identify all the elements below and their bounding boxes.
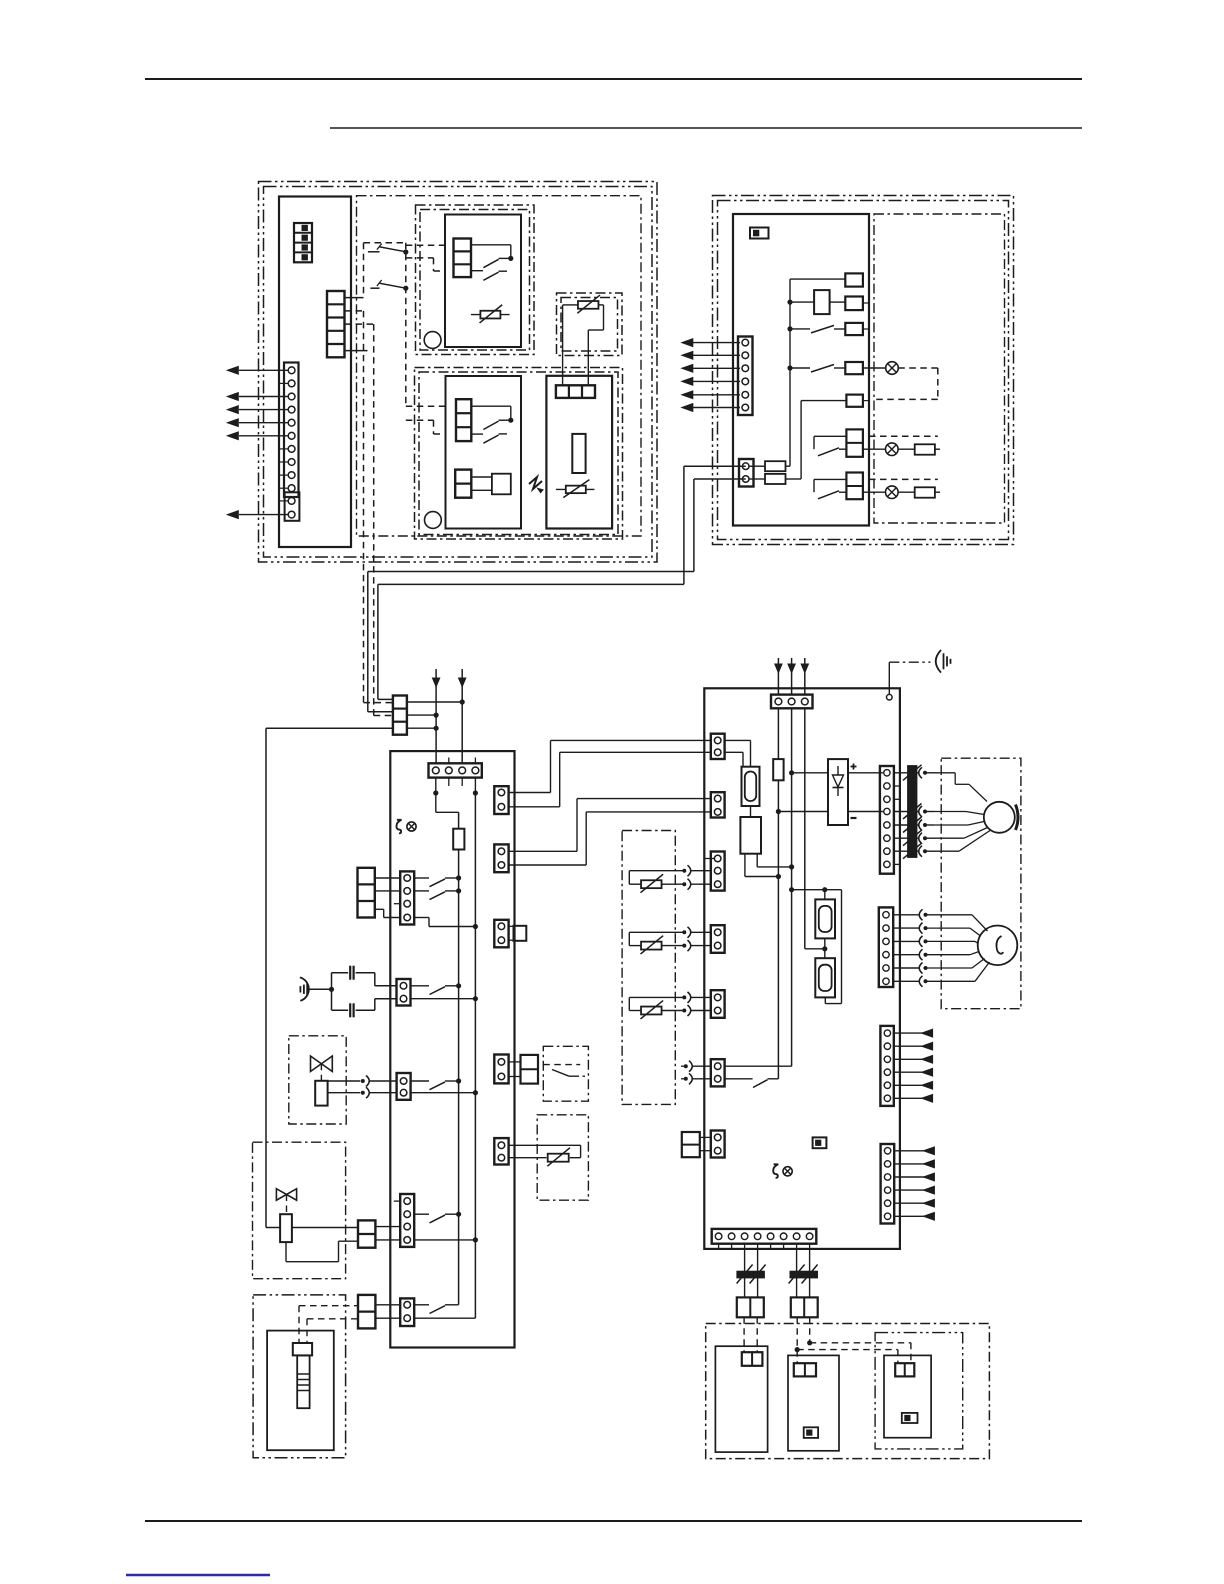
bridge plug [509, 925, 514, 927]
electrode block 3 [884, 1355, 931, 1437]
valve symbol [276, 1189, 296, 1201]
wire L-feed A [684, 465, 746, 467]
connector X5 2-pole [397, 1073, 411, 1100]
service icon [396, 820, 401, 834]
motor fan M3 [984, 802, 1015, 833]
node junction [456, 875, 461, 880]
connector X9 2-pole [494, 844, 508, 872]
earth terminal [887, 694, 893, 700]
node junction [807, 1340, 812, 1345]
lamp icon [407, 822, 416, 831]
relay contact [725, 1078, 753, 1080]
terminal circle [424, 332, 441, 349]
node junction [473, 1237, 478, 1242]
wire [414, 1317, 475, 1319]
relay contact [411, 1080, 429, 1082]
link underline [126, 1574, 270, 1576]
plug contact [361, 1079, 365, 1083]
antenna bar [572, 434, 585, 473]
jumper box [813, 1137, 827, 1148]
node outdoor sensor enclosure [557, 293, 623, 356]
wire [375, 1226, 400, 1228]
wire dashed [298, 1306, 300, 1343]
lamp H1 [863, 367, 886, 369]
node ignition unit enclosure [253, 1295, 346, 1458]
resistor NTC [471, 314, 510, 316]
relay contact [414, 877, 429, 879]
connector 3-pole [456, 399, 471, 441]
relay contact [483, 259, 498, 267]
plug pair [509, 1061, 521, 1063]
node boiler control enclosure outer border [259, 182, 658, 563]
node junction [473, 1090, 478, 1095]
node junction [508, 418, 513, 423]
spark plug body [297, 1355, 309, 1408]
wire [599, 304, 604, 306]
node junction [403, 249, 408, 254]
connector X13 2-pole [494, 920, 508, 948]
controller module KM1 [279, 197, 351, 548]
indicator box [750, 228, 769, 239]
wire [330, 127, 1082, 129]
connector external 2-pole [358, 1220, 375, 1247]
connector X20 3-pole [393, 696, 407, 735]
wire [375, 1304, 400, 1306]
relay contact K1 [368, 251, 380, 253]
connector X8 2-pole [494, 786, 508, 814]
relay contact [414, 890, 429, 892]
relay contact K4 [790, 328, 810, 330]
shielded cable bar [908, 766, 917, 858]
mains wires with arrows [777, 658, 779, 695]
relay output O3 [845, 323, 863, 335]
node junction [508, 256, 513, 261]
wire [345, 310, 364, 312]
wire [375, 890, 400, 892]
wire [407, 727, 436, 729]
wire stubs [894, 785, 900, 787]
switch contact [552, 1070, 569, 1077]
plug block right [791, 1297, 818, 1317]
node junction [433, 790, 438, 795]
wire [414, 1239, 475, 1241]
wire [407, 701, 462, 703]
plug contact [361, 1091, 365, 1095]
wire [725, 739, 751, 741]
relay K7 [815, 958, 835, 997]
room thermostat module B2 [446, 376, 522, 529]
terminal strip X1 4-pole [429, 763, 482, 777]
wire [411, 1092, 476, 1094]
fuse F3 [453, 829, 464, 850]
wire dashed [306, 1319, 308, 1343]
node junction [456, 888, 461, 893]
valve symbol [311, 1056, 333, 1072]
wire bus V2 [474, 793, 476, 1318]
connector 3-pole [556, 385, 595, 398]
connector 2-pole [711, 1131, 725, 1158]
wire [435, 778, 437, 793]
sensor NTC B3 [629, 870, 683, 872]
connector 2-pole [711, 1059, 725, 1086]
wire mains drop 2 [461, 669, 463, 763]
transformer T1 [742, 767, 760, 806]
terminal strip X26 6-pole [880, 1026, 893, 1106]
connector external 2-pole [358, 1295, 375, 1329]
wire [345, 297, 364, 299]
wire [563, 304, 578, 306]
indicator box [804, 1427, 818, 1438]
electrode block 1 [715, 1346, 767, 1452]
switch block [492, 474, 511, 495]
wire L-feed B [694, 478, 746, 480]
sensor NTC B5 [629, 996, 683, 998]
node room thermostat 1 enclosure [416, 205, 535, 355]
wire [375, 1239, 400, 1241]
wire [474, 778, 476, 793]
wire [725, 751, 743, 753]
connector X24 2-pole [711, 734, 725, 759]
node junction [789, 770, 794, 775]
wire tick [394, 903, 400, 905]
terminal strip X28 8-pole [712, 1229, 817, 1244]
wire stub [704, 858, 714, 860]
node external motors enclosure [941, 758, 1021, 1009]
terminal strip X21 3-pole [771, 695, 813, 709]
wire dashed [756, 1317, 758, 1352]
node junction [403, 286, 408, 291]
wire dashed [898, 367, 938, 369]
relay contact K2 [370, 287, 379, 289]
node external switch enclosure [543, 1046, 588, 1101]
node heating valve enclosure [289, 1036, 346, 1124]
terminal strip X7 2-pole [400, 1298, 414, 1326]
relay output O5 [846, 395, 863, 407]
relay transformer chain [792, 889, 842, 891]
wire dashed control bus [363, 243, 365, 298]
wire [414, 917, 429, 919]
sensor NTC B6 [509, 1144, 581, 1146]
node appliance interior border [357, 196, 642, 536]
fuse F1 [898, 448, 915, 450]
node burner group enclosure [706, 1324, 990, 1459]
ground chassis symbol [936, 650, 941, 673]
node flow sensor enclosure [537, 1115, 588, 1200]
relay output O2 [845, 297, 863, 311]
sensor NTC AF [578, 301, 599, 309]
shielded cables to igniter [744, 1249, 746, 1298]
fuse Si1 [749, 465, 765, 467]
wire to fan motor [934, 772, 955, 774]
radio clock module DCF [546, 376, 612, 529]
connector X14 2-pole [494, 1055, 508, 1084]
relay output O4 [845, 362, 863, 374]
wire [471, 244, 511, 246]
plug pair external [682, 1132, 700, 1157]
electrode block 2 [788, 1355, 839, 1450]
terminal strip X23 6-pole [879, 907, 893, 987]
terminal strip X12 5-pole [327, 291, 345, 357]
node junction [787, 326, 792, 331]
node junction [434, 726, 439, 731]
terminal strip X3 4-pole [400, 871, 414, 924]
wire neutral return [266, 727, 393, 729]
pcb burner control board A3 [704, 688, 900, 1249]
wire [471, 476, 492, 478]
lamp H2 [863, 448, 886, 450]
terminal circle [425, 512, 442, 529]
terminal strip X22 8-pole [880, 766, 894, 874]
switch module A2 [733, 214, 869, 526]
wire dashed [869, 478, 938, 480]
ignition module [267, 1331, 334, 1451]
relay contact [471, 433, 483, 435]
node junction [789, 887, 794, 892]
node junction [473, 924, 478, 929]
rectifier bridge [792, 772, 828, 774]
wire loop [285, 1242, 287, 1262]
wire dashed [797, 1349, 898, 1351]
relay contact [483, 421, 498, 429]
connector 3-pole [454, 239, 472, 278]
wire link 2 [509, 806, 560, 808]
spark plug cap [293, 1343, 312, 1355]
fuse Si2 [749, 478, 765, 480]
wire [375, 908, 384, 910]
wire link 4 [509, 864, 587, 866]
terminal strip X6 4-pole [400, 1194, 414, 1247]
wire [328, 1080, 361, 1082]
external wires with arrows [693, 342, 740, 344]
wire dashed [320, 1064, 322, 1081]
plug block left [737, 1297, 764, 1317]
wire phase P3 [804, 708, 806, 949]
node junction [329, 987, 334, 992]
connector 2-pole [711, 990, 725, 1018]
node junction [795, 1347, 800, 1352]
wire [328, 1092, 361, 1094]
connector X4 2-pole [397, 979, 411, 1006]
relay group KA [814, 435, 846, 437]
capacitor filter loop [331, 973, 333, 1011]
transformer block [740, 817, 761, 854]
wire dashed to room thermostat 1 [406, 244, 445, 246]
pcb boiler control board A1 [390, 751, 514, 1347]
node junction [789, 864, 794, 869]
external wires with arrows [239, 369, 288, 371]
wire [756, 854, 758, 867]
valve coil M1 [315, 1081, 327, 1106]
wire dashed [743, 1317, 745, 1352]
wire mains drop 1 [435, 669, 437, 763]
wire dashed [286, 1195, 288, 1215]
wire stubs [448, 758, 450, 764]
node junction [776, 809, 781, 814]
connector X15 2-pole [494, 1138, 508, 1164]
motor pump M4 [978, 926, 1018, 966]
wire [345, 323, 374, 325]
node junction [473, 790, 478, 795]
sensor NTC B4 [629, 931, 683, 933]
wire [411, 998, 476, 1000]
node junction [434, 713, 439, 718]
node junction [824, 938, 826, 958]
wire dashed [869, 435, 938, 437]
connector X11 4-pole [294, 223, 312, 262]
relay K6 [824, 890, 826, 900]
node ionisation electrode enclosure [875, 1333, 963, 1449]
wire [375, 1317, 400, 1319]
relay contact [414, 1304, 429, 1306]
wire dashed [809, 1317, 811, 1343]
lamp H3 [863, 491, 886, 493]
node junction [456, 1212, 461, 1217]
ground chassis [299, 986, 301, 992]
node junction [456, 1078, 461, 1083]
relay contact [414, 1213, 429, 1215]
wire [145, 78, 1082, 80]
node junction [473, 996, 478, 1001]
wire dashed from X12.2 [363, 311, 365, 703]
wire link 1 [509, 792, 551, 794]
node junction [776, 874, 781, 879]
wire [407, 714, 436, 716]
connector 2-pole [742, 1352, 763, 1366]
radio signal symbol [529, 477, 542, 489]
wire bus V1 [458, 812, 460, 1305]
node room thermostat 2 enclosure [415, 368, 623, 540]
wire [345, 350, 368, 352]
service icon [773, 1164, 778, 1178]
resistor NTC [556, 488, 595, 490]
node junction [787, 365, 792, 370]
wire [471, 489, 492, 491]
terminal strip 6-pole [738, 337, 753, 416]
wire [145, 1520, 1082, 1522]
wire internal P2 return [725, 1065, 792, 1067]
wire dashed [796, 1317, 798, 1363]
wire [471, 405, 511, 407]
wire dashed [543, 1064, 580, 1066]
indicator box [902, 1413, 918, 1423]
connector 2-pole [794, 1363, 816, 1376]
room thermostat module B1 [445, 215, 521, 348]
connector X2 2-pole [739, 459, 754, 487]
connector 3-pole [711, 852, 725, 891]
relay contact [411, 985, 430, 987]
wire [292, 1227, 358, 1229]
wire [448, 778, 450, 786]
wire [786, 465, 791, 467]
node junction [460, 699, 465, 704]
terminal strip X10 12-pole [284, 363, 299, 498]
wire [375, 877, 400, 879]
connector 2-pole [455, 470, 471, 498]
relay contact K5 [790, 367, 810, 369]
connector external 3-pole [358, 868, 375, 918]
fuse F4 [773, 759, 783, 780]
lamp icon [783, 1167, 792, 1176]
wire [786, 478, 802, 480]
wire tick [394, 1200, 400, 1202]
relay contact [471, 270, 483, 272]
terminal strip X27 6-pole [881, 1144, 895, 1224]
node sensors enclosure [622, 831, 675, 1105]
wire [744, 854, 746, 877]
connector 2-pole [895, 1363, 914, 1376]
relay group KB [814, 478, 846, 480]
plug contacts [681, 1065, 685, 1067]
connector X25 2-pole [711, 792, 725, 817]
connector 2-pole [711, 925, 725, 953]
fuse F2 [898, 491, 915, 493]
node switch box enclosure outer border [713, 196, 1014, 545]
wire phase P1 [777, 708, 779, 1079]
node junction [456, 983, 461, 988]
wire to pump motor [893, 914, 919, 916]
gas valve coil M2 [280, 1214, 292, 1242]
wire link 3 [509, 850, 577, 852]
wire phase P2 [791, 708, 793, 1066]
relay coil K3 [790, 301, 814, 303]
wire dashed from X12.3 [373, 324, 375, 715]
node panel area border [874, 214, 1005, 523]
wire dashed [810, 1342, 911, 1344]
wire dashed to room thermostat 2 [406, 405, 446, 407]
relay output O1 [790, 278, 845, 280]
node gas valve enclosure [253, 1142, 346, 1279]
node junction [787, 300, 792, 305]
